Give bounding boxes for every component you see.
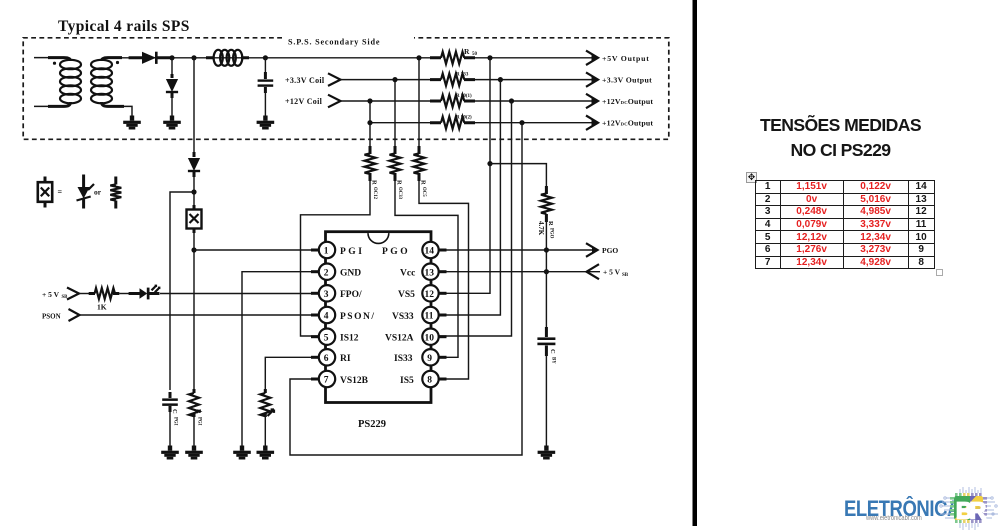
svg-text:1: 1: [324, 247, 329, 257]
svg-text:R 50(1): R 50(1): [456, 94, 472, 99]
right panel heading: [700, 113, 981, 162]
svg-text:+3.3V Output: +3.3V Output: [602, 76, 652, 85]
node x490 y163.6: [487, 161, 492, 166]
wire D3 to node: [193, 174, 195, 209]
node x419 y57.8: [416, 55, 421, 60]
pin 14 PGO: [382, 242, 447, 258]
svg-text:Typical 4 rails SPS: Typical 4 rails SPS: [58, 18, 190, 35]
diode D2 to ground: [166, 74, 178, 98]
svg-text:R: R: [396, 180, 403, 185]
wire RPGO tap: [490, 164, 546, 190]
node rail2 x500: [498, 77, 503, 82]
svg-text:R: R: [195, 409, 202, 414]
wire +12V rail: [341, 100, 437, 102]
node rail1 x490: [487, 55, 492, 60]
svg-text:RI: RI: [340, 354, 351, 364]
node x370 y122.7: [367, 120, 372, 125]
wire VS33 sense x500: [439, 80, 501, 315]
wire +12V second rail: [370, 122, 437, 124]
svg-text:R: R: [464, 47, 470, 56]
svg-text:9: 9: [427, 354, 432, 364]
pin 9 IS33: [394, 349, 447, 365]
node x370 y101: [367, 98, 372, 103]
op IC U1 PS229 body: [326, 232, 432, 403]
transformer secondary winding: [102, 58, 123, 61]
wire RI to ground: [264, 415, 266, 449]
svg-text:+5V Output: +5V Output: [602, 54, 650, 63]
svg-text:or: or: [94, 188, 102, 197]
wire +5V rail: [122, 57, 437, 59]
svg-text:10: 10: [425, 333, 435, 343]
svg-text:+12VDCOutput: +12VDCOutput: [602, 97, 653, 106]
wire ROC12 to IS12 route: [301, 179, 371, 336]
measurements table: [755, 180, 935, 269]
svg-text:R 50(2): R 50(2): [456, 116, 472, 121]
diode D3 (above fuse): [188, 152, 200, 177]
node x194 y192: [191, 189, 196, 194]
svg-text:PSON/: PSON/: [340, 312, 375, 322]
pin 7 VS12B: [311, 371, 369, 387]
capacitor C1 filter: [258, 58, 274, 119]
transformer primary phase dot: [53, 62, 56, 65]
wire +5VSB to R 1K: [79, 293, 90, 295]
svg-text:12: 12: [425, 290, 435, 300]
pin 4 PSON: [311, 307, 375, 323]
svg-text:+12V Coil: +12V Coil: [285, 97, 323, 106]
resistor R4 (+12V output 2): [430, 116, 475, 129]
wire PSON to pin 4: [80, 314, 319, 316]
wire 1K to LED: [119, 293, 130, 295]
ground transformer secondary: [123, 116, 141, 130]
svg-text:2: 2: [324, 268, 329, 278]
vertical sense line x395 (+3.3V): [394, 80, 396, 151]
ground pin2: [233, 446, 251, 460]
vertical sense line x419 (+5V): [418, 58, 420, 151]
connector arrow +12V Output 2: [586, 116, 598, 130]
svg-text:50: 50: [472, 52, 478, 57]
node x395 y79.6: [392, 77, 397, 82]
svg-text:C: C: [549, 349, 556, 354]
svg-text:4: 4: [324, 312, 329, 322]
capacitor CBY: [537, 327, 556, 364]
wire RPGI to ground: [193, 415, 195, 449]
svg-text:R: R: [970, 498, 987, 524]
svg-text:PGI: PGI: [340, 247, 364, 257]
svg-text:VS12B: VS12B: [340, 376, 369, 386]
svg-text:R: R: [420, 180, 427, 185]
svg-text:1K: 1K: [97, 303, 107, 312]
node rail4 x522: [519, 120, 524, 125]
node Vcc x546: [544, 269, 549, 274]
connector arrow +5V Output: [586, 51, 598, 65]
svg-text:3: 3: [324, 290, 329, 300]
table move handle: [746, 172, 757, 183]
logo ELETRONICA BR: [844, 496, 960, 522]
resistor ROC5: [414, 146, 427, 197]
wire +3.3V rail: [341, 79, 437, 81]
svg-text:PGI: PGI: [197, 417, 202, 426]
connector arrow PGO: [586, 243, 598, 257]
svg-text:VS12A: VS12A: [385, 334, 414, 344]
svg-text:S.P.S. Secondary Side: S.P.S. Secondary Side: [288, 38, 380, 47]
svg-text:BY: BY: [551, 357, 556, 364]
capacitor CPGI: [162, 392, 178, 426]
inductor L1: [206, 50, 249, 66]
node x194 y250 (PGI): [191, 247, 196, 252]
svg-text:VS33: VS33: [392, 312, 414, 322]
pin 5 IS12: [311, 329, 359, 345]
svg-text:Vcc: Vcc: [400, 269, 415, 279]
svg-text:+ 5 V: + 5 V: [42, 290, 60, 299]
svg-text:14: 14: [425, 247, 435, 257]
svg-text:C: C: [171, 409, 178, 414]
wire Vcc line: [439, 271, 600, 273]
svg-text:PGO: PGO: [602, 246, 618, 255]
ground under D2: [163, 116, 181, 130]
transformer T1: [34, 58, 124, 107]
wire LED to pin 3 FPO: [160, 293, 319, 295]
wire ROC33 to IS33 route: [395, 179, 458, 357]
wire R4 to +12V output 2: [475, 122, 594, 124]
svg-text:PGI: PGI: [173, 417, 178, 426]
svg-text:PGO: PGO: [382, 247, 410, 257]
svg-text:+ 5 V: + 5 V: [603, 268, 621, 277]
connector arrow +5V in: [587, 264, 600, 279]
pin 8 IS5: [400, 371, 447, 387]
resistor R5 1K: [89, 288, 120, 311]
pin 13 Vcc: [400, 264, 447, 280]
svg-text:13: 13: [425, 268, 435, 278]
svg-text:11: 11: [425, 312, 434, 322]
wire R1 to +5V output: [475, 57, 594, 59]
divider bar: [693, 0, 698, 526]
wire CBY to ground: [545, 354, 547, 449]
wire D2 to ground: [171, 95, 173, 119]
pin 10 VS12A: [385, 329, 447, 345]
wire CPGI to ground: [169, 410, 171, 449]
transformer secondary phase dot: [116, 61, 119, 64]
svg-text:VS5: VS5: [398, 290, 415, 300]
wire stub to CPGI branch: [170, 192, 194, 390]
ground under RPGI: [185, 446, 203, 460]
resistor ROC33: [390, 146, 403, 200]
wire fuse to pin1 node: [193, 231, 195, 392]
svg-text:PSON: PSON: [42, 313, 61, 321]
svg-text:5: 5: [324, 333, 329, 343]
transformer primary winding: [34, 57, 62, 59]
node rail1 x265: [263, 55, 268, 60]
pin 2 GND: [311, 264, 361, 280]
wire secondary bottom to ground: [122, 106, 132, 119]
pin 12 VS5: [398, 285, 447, 301]
wire PGI to pin 1: [194, 249, 319, 251]
pin 3 FPO: [311, 285, 362, 301]
wire PGO line: [439, 249, 593, 251]
LED D4: [129, 285, 161, 300]
svg-text:7: 7: [324, 376, 329, 386]
svg-text:IS5: IS5: [400, 376, 414, 386]
connector arrow +12V Output 1: [586, 94, 598, 108]
wire pin6 RI route: [265, 357, 319, 392]
svg-text:FPO/: FPO/: [340, 290, 362, 300]
resistor ROC12: [365, 146, 378, 200]
svg-text:+12VDCOutput: +12VDCOutput: [602, 119, 653, 128]
svg-text:8: 8: [427, 376, 432, 386]
table resize handle: [936, 269, 943, 276]
svg-text:PGO: PGO: [549, 228, 554, 239]
wire VS12A sense x512: [439, 101, 512, 336]
wire x194 rail1 down to diode chain: [193, 58, 195, 154]
node rail3 x511: [509, 98, 514, 103]
ground under C1: [257, 116, 275, 130]
svg-text:PS229: PS229: [358, 419, 386, 430]
ground under CBY: [538, 446, 556, 460]
svg-text:R: R: [547, 221, 554, 226]
pin 11 VS33: [392, 307, 447, 323]
svg-text:4.7K: 4.7K: [537, 221, 545, 236]
legend resistor: [110, 177, 121, 209]
wire Vcc node down to CBY: [545, 272, 547, 330]
svg-text:OC33: OC33: [397, 187, 402, 200]
svg-text:OC12: OC12: [372, 187, 377, 200]
resistor R1 (+5V output): [430, 47, 478, 64]
svg-text:OC5: OC5: [421, 187, 426, 197]
wire RPGO down to PGO line: [545, 220, 547, 272]
resistor RPGI: [189, 389, 202, 426]
vertical sense line x370 (+12V): [369, 101, 371, 151]
wire VS5 sense x490: [439, 58, 490, 293]
fuse F1: [187, 205, 202, 233]
ground under CPGI: [161, 446, 179, 460]
svg-text:GND: GND: [340, 269, 361, 279]
svg-text:+3.3V Coil: +3.3V Coil: [285, 76, 325, 85]
resistor RPGO 4.7K: [537, 186, 554, 239]
node rail1 x172: [169, 55, 174, 60]
wire pin2 GND route: [242, 272, 319, 449]
resistor R6 RI: [260, 389, 274, 417]
logo BR chip icon: [936, 484, 1000, 532]
svg-text:R: R: [371, 180, 378, 185]
svg-text:R 333: R 333: [456, 72, 469, 77]
legend zener diode: [77, 175, 95, 209]
wire R3 to +12V output: [475, 100, 594, 102]
diode D1 rectifier: [129, 52, 172, 64]
wire R2 to +3.3V output: [475, 79, 594, 81]
svg-text:IS33: IS33: [394, 354, 413, 364]
svg-text:IS12: IS12: [340, 334, 359, 344]
node rail1 x194: [191, 55, 196, 60]
svg-text:SB: SB: [622, 273, 629, 278]
ground under RI: [257, 446, 275, 460]
legend fuse symbol: [38, 177, 52, 208]
pin 1 PGI: [311, 242, 364, 258]
connector arrow +3.3V Output: [586, 72, 598, 86]
node PGO x546: [544, 247, 549, 252]
resistor R3 (+12V output): [430, 94, 475, 107]
dashed box S.P.S. secondary side: [23, 38, 669, 140]
pin 6 RI: [311, 349, 351, 365]
IC notch: [368, 233, 389, 243]
wire ROC5 to IS5 route: [419, 179, 469, 379]
resistor R2 (+3.3V output): [430, 72, 475, 85]
wire x172 down: [171, 58, 173, 76]
wire VS12B sense x522: [290, 123, 522, 455]
svg-text:6: 6: [324, 354, 329, 364]
svg-text:=: =: [58, 188, 63, 197]
